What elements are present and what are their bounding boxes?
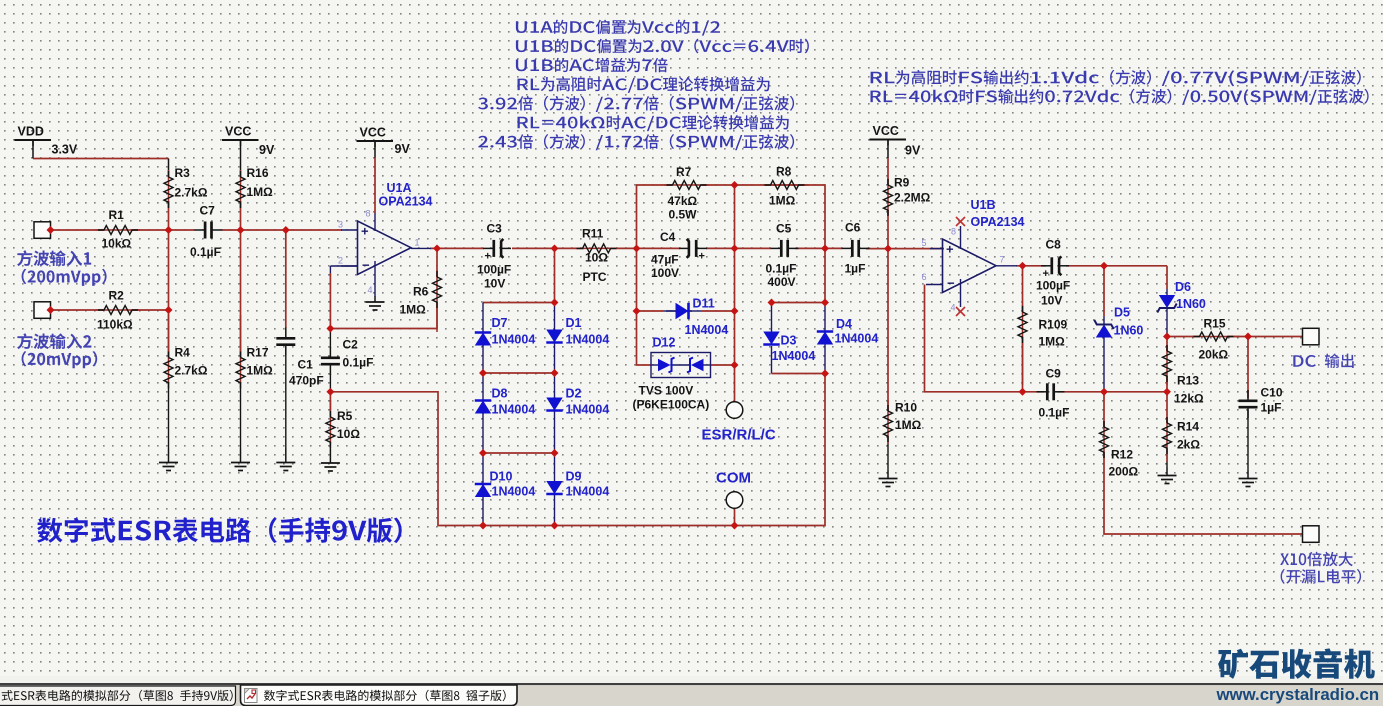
wire D3 D4 clamp loop [772, 248, 826, 302]
node label square-wave input1 [17, 250, 91, 266]
wire ladder D8 D2 cells [482, 373, 484, 401]
svg-text:4: 4 [368, 285, 373, 295]
terminal COM [726, 492, 743, 509]
svg-text:R16: R16 [247, 166, 269, 180]
svg-text:R11: R11 [582, 227, 604, 241]
svg-text:400V: 400V [768, 275, 796, 289]
svg-text:2.7kΩ: 2.7kΩ [175, 186, 208, 200]
svg-text:D10: D10 [490, 470, 513, 484]
wire D1 column [554, 303, 556, 331]
power VCC 9V (R16 column) [222, 139, 259, 141]
wire U1B feedback to C9 [925, 285, 1045, 392]
svg-text:C9: C9 [1046, 367, 1062, 381]
annotation note line 7 [478, 134, 794, 150]
annotation note line 5 [478, 96, 794, 112]
capacitor C3 [483, 247, 494, 249]
svg-text:10V: 10V [1041, 294, 1062, 308]
resistor R1 [96, 229, 140, 231]
no-connect marker U1B pin4 [956, 307, 965, 316]
wire R109 branch [1022, 266, 1024, 312]
wire R6 branch [436, 248, 438, 277]
svg-text:R1: R1 [109, 208, 125, 222]
svg-text:47µF: 47µF [651, 253, 679, 267]
svg-text:D5: D5 [1114, 306, 1130, 320]
svg-text:D7: D7 [492, 316, 508, 330]
no-connect marker U1B pin8 [956, 217, 965, 226]
sheet tab 2 (tweezer version) [241, 685, 518, 706]
wire R5 to ground [329, 442, 331, 449]
svg-text:1N4004: 1N4004 [566, 403, 610, 417]
op-amp U1B [943, 239, 997, 293]
node label X10 amplified [1280, 552, 1353, 567]
svg-text:1N4004: 1N4004 [835, 332, 879, 346]
wire R12 branch [1103, 392, 1105, 427]
node label square-wave input2 [17, 333, 91, 349]
svg-text:10kΩ: 10kΩ [102, 237, 132, 251]
wire R14 branch [1166, 392, 1168, 423]
svg-text:C1: C1 [298, 358, 314, 372]
svg-text:0.5W: 0.5W [669, 208, 698, 222]
svg-text:PTC: PTC [583, 270, 607, 284]
svg-text:VCC: VCC [873, 124, 899, 138]
svg-text:+: + [485, 250, 491, 262]
capacitor C5 [771, 247, 782, 249]
resistor R8 [763, 184, 809, 186]
ground below R14 [1166, 468, 1168, 476]
svg-text:C7: C7 [200, 204, 216, 218]
annotation note line 2 [516, 39, 809, 54]
wire VCC to R16 [240, 140, 242, 177]
TVS diode D12 [651, 353, 711, 378]
svg-text:U1B: U1B [971, 198, 996, 212]
svg-text:R2: R2 [109, 289, 125, 303]
svg-text:1N4004: 1N4004 [492, 333, 536, 347]
svg-text:110kΩ: 110kΩ [97, 318, 133, 332]
resistor R10 [887, 400, 889, 444]
annotation note line 3 [516, 58, 668, 73]
diode D8 [482, 401, 484, 414]
resistor R16 [240, 170, 242, 208]
resistor R15 [1192, 336, 1240, 338]
svg-text:1MΩ: 1MΩ [400, 303, 427, 317]
svg-text:100µF: 100µF [1036, 279, 1070, 293]
wire R11 to C4 [610, 247, 681, 249]
svg-text:D3: D3 [781, 334, 797, 348]
svg-text:1MΩ: 1MΩ [247, 185, 274, 199]
title digital ESR meter circuit (handheld 9V) [37, 518, 402, 544]
diode D9 [554, 481, 556, 495]
capacitor C4 [679, 247, 690, 249]
svg-text:0.1µF: 0.1µF [190, 245, 221, 259]
svg-text:R6: R6 [413, 285, 429, 299]
wire D12 branch [637, 311, 652, 365]
resistor R12 [1103, 421, 1105, 458]
svg-text:1MΩ: 1MΩ [1039, 335, 1066, 349]
wire input1 line port1-R1-junction-C7-opamp [51, 229, 105, 231]
svg-text:C6: C6 [845, 221, 861, 235]
svg-text:6: 6 [922, 272, 927, 282]
wire VCC to R9 [887, 140, 889, 159]
sheet tab 1 label [2, 690, 233, 702]
wire U1A VCC supply [374, 141, 376, 158]
svg-text:200Ω: 200Ω [1109, 465, 1139, 479]
svg-text:9V: 9V [905, 144, 921, 158]
svg-text:1N4004: 1N4004 [772, 349, 816, 363]
watermark logo crystalradio [1218, 648, 1375, 679]
power VCC 9V (U1A) [357, 140, 394, 142]
sheet tab 2 icon [245, 689, 258, 703]
svg-text:1µF: 1µF [845, 262, 866, 276]
wire mid node column [734, 248, 736, 401]
capacitor C10 [1247, 390, 1249, 401]
capacitor C1 [285, 328, 287, 339]
svg-text:47kΩ: 47kΩ [668, 194, 698, 208]
svg-text:C4: C4 [660, 230, 676, 244]
wire C3 to R11 [512, 247, 584, 249]
diode D3 [763, 332, 779, 345]
svg-text:1N4004: 1N4004 [492, 403, 536, 417]
wire C9 to R13 junction [1057, 391, 1167, 393]
svg-text:9V: 9V [259, 143, 275, 157]
resistor R4 [168, 315, 170, 384]
svg-text:R109: R109 [1039, 318, 1068, 332]
svg-text:D12: D12 [653, 336, 676, 350]
svg-text:ESR/R/L/C: ESR/R/L/C [702, 427, 776, 444]
wire R16 to input line [240, 201, 242, 230]
wire U1A output line [430, 247, 484, 249]
ground below C10 [1247, 471, 1249, 479]
wire R7-R8 junction drop [734, 185, 736, 248]
resistor R11 [576, 247, 617, 249]
svg-text:C5: C5 [776, 222, 792, 236]
svg-text:C10: C10 [1261, 386, 1283, 400]
wire VDD 3.3V rail to R3 top [32, 140, 34, 159]
sheet tab 2 label [264, 690, 506, 702]
wire R17 to ground [240, 382, 242, 449]
resistor R3 [168, 170, 170, 208]
wire column R3-R4 node [168, 201, 170, 357]
resistor R7 [664, 184, 709, 186]
diode D1 [554, 329, 556, 343]
node label DC output [1293, 354, 1353, 369]
svg-text:2: 2 [338, 256, 343, 266]
svg-text:8: 8 [366, 209, 371, 219]
resistor R14 [1166, 417, 1168, 462]
wire ladder bottom cells [482, 453, 484, 484]
svg-text:10Ω: 10Ω [337, 427, 360, 441]
svg-text:12kΩ: 12kΩ [1174, 392, 1204, 406]
svg-text:0.1µF: 0.1µF [766, 262, 797, 276]
wire D11 branch [637, 248, 665, 311]
capacitor C6 [842, 247, 853, 249]
svg-text:10Ω: 10Ω [585, 251, 608, 265]
svg-text:1N4004: 1N4004 [685, 323, 729, 337]
svg-text:1MΩ: 1MΩ [769, 194, 796, 208]
svg-text:−: − [362, 258, 370, 273]
svg-text:+: + [361, 224, 369, 239]
svg-text:100µF: 100µF [477, 263, 511, 277]
svg-text:1MΩ: 1MΩ [247, 364, 274, 378]
ground below R10 [887, 471, 889, 479]
resistor R9 [887, 178, 889, 215]
svg-text:R9: R9 [894, 176, 910, 190]
svg-text:R3: R3 [175, 166, 191, 180]
wire U1B output line [1016, 265, 1046, 267]
svg-text:R15: R15 [1204, 317, 1226, 331]
svg-text:R17: R17 [247, 346, 269, 360]
wire C10 branch [1247, 337, 1249, 399]
ground below R4 [168, 449, 170, 463]
svg-text:1MΩ: 1MΩ [895, 418, 922, 432]
svg-text:VCC: VCC [225, 125, 251, 139]
resistor R13 [1166, 345, 1168, 385]
svg-text:1N60: 1N60 [1176, 297, 1206, 311]
wire ladder rail 3 [482, 413, 484, 453]
wire input2 line port2-R2 [51, 309, 105, 311]
svg-text:5: 5 [922, 238, 927, 248]
svg-text:R4: R4 [175, 346, 191, 360]
diode D4 [817, 332, 833, 345]
wire D6 branch [1166, 266, 1168, 289]
svg-text:COM: COM [716, 470, 751, 487]
svg-text:R10: R10 [895, 401, 917, 415]
ground below R17 [240, 449, 242, 463]
svg-text:D6: D6 [1175, 280, 1191, 294]
port DC output [1303, 328, 1320, 345]
svg-text:1: 1 [415, 238, 420, 248]
port X10 output [1303, 526, 1320, 543]
scrollbar strip [0, 676, 1383, 684]
svg-text:OPA2134: OPA2134 [379, 195, 433, 209]
svg-text:D9: D9 [566, 470, 582, 484]
wire ladder rail 2 [482, 345, 484, 373]
ground U1A pin4 [374, 296, 376, 302]
diode D2 [554, 397, 556, 411]
annotation note line 6 [518, 115, 789, 131]
svg-text:0.1µF: 0.1µF [343, 356, 374, 370]
svg-text:4: 4 [951, 303, 956, 313]
wire R15 line [1167, 336, 1200, 338]
tab bar divider line [0, 683, 1383, 685]
port input2 [34, 302, 51, 319]
svg-text:470pF: 470pF [289, 374, 324, 388]
wire C4 to C5 [706, 247, 771, 249]
svg-text:VCC: VCC [360, 126, 386, 140]
capacitor C2 [329, 347, 331, 358]
svg-text:2.7kΩ: 2.7kΩ [175, 364, 208, 378]
svg-text:3.3V: 3.3V [52, 143, 78, 157]
svg-text:D4: D4 [836, 317, 852, 331]
svg-text:20kΩ: 20kΩ [1199, 348, 1229, 362]
svg-text:7: 7 [1000, 255, 1005, 265]
wire COM terminal stem [734, 509, 736, 526]
wire D5 branch [1103, 266, 1105, 316]
wire R4 to ground [168, 382, 170, 449]
op-amp U1A [358, 221, 412, 275]
terminal ESR/R/L/C [726, 402, 743, 419]
annotation note line 4 [518, 77, 770, 93]
wire R13 branch [1166, 337, 1168, 352]
diode D7 [482, 333, 484, 346]
power VCC 9V (R9 column) [870, 139, 907, 141]
svg-text:−: − [947, 276, 955, 291]
wire R17 column [240, 230, 242, 357]
diode D10 [482, 484, 484, 497]
node label input2 level [22, 351, 98, 368]
annotation note right line 2 [871, 89, 1369, 105]
svg-text:100V: 100V [651, 266, 679, 280]
svg-text:R13: R13 [1177, 374, 1199, 388]
svg-text:R12: R12 [1111, 448, 1133, 462]
diode D5 1N60 [1096, 325, 1112, 338]
wire C2 node to R5 [329, 329, 331, 349]
svg-text:U1A: U1A [387, 181, 412, 195]
junction dots [165, 226, 173, 234]
diode D6 1N60 [1159, 295, 1175, 308]
capacitor C9 [1037, 391, 1048, 393]
svg-text:C3: C3 [487, 222, 503, 236]
svg-text:1N4004: 1N4004 [566, 485, 610, 499]
svg-text:1N4004: 1N4004 [566, 333, 610, 347]
diode D11 [666, 310, 692, 312]
resistor R17 [240, 315, 242, 384]
capacitor C8 [1041, 265, 1052, 267]
wire R10 to ground [887, 436, 889, 471]
annotation note line 1 [516, 20, 720, 36]
wire diode ladder top rail [483, 248, 555, 302]
power VDD 3.3V [15, 139, 52, 141]
wire R10 column [887, 249, 889, 411]
svg-text:8: 8 [951, 227, 956, 237]
sheet tab bar [0, 685, 1383, 706]
node label open-drain L level [1281, 569, 1362, 584]
svg-text:D1: D1 [566, 316, 582, 330]
svg-text:1N4004: 1N4004 [492, 485, 536, 499]
svg-text:R8: R8 [776, 165, 792, 179]
svg-text:C8: C8 [1046, 238, 1062, 252]
svg-text:www.crystalradio.cn: www.crystalradio.cn [1216, 685, 1380, 704]
svg-text:2kΩ: 2kΩ [1177, 438, 1200, 452]
svg-text:VDD: VDD [18, 125, 44, 139]
svg-text:+: + [946, 242, 954, 257]
node label input1 level [22, 269, 107, 286]
svg-text:+: + [699, 250, 705, 262]
svg-text:D11: D11 [693, 297, 715, 311]
svg-text:C2: C2 [343, 338, 359, 352]
sheet tab 1 (handheld 9V) [0, 686, 236, 706]
svg-text:1µF: 1µF [1261, 401, 1282, 415]
svg-text:0.1µF: 0.1µF [1039, 406, 1070, 420]
svg-text:3: 3 [338, 220, 343, 230]
resistor R6 [436, 270, 438, 332]
svg-text:D2: D2 [566, 387, 582, 401]
wire feedback node to bottom bus [330, 374, 825, 526]
port input1 [34, 222, 51, 239]
resistor R2 [96, 309, 140, 311]
svg-text:D8: D8 [492, 387, 508, 401]
resistor R5 [329, 400, 331, 444]
wire C1 column [285, 230, 287, 328]
svg-text:1N60: 1N60 [1114, 324, 1144, 338]
svg-text:R14: R14 [1177, 420, 1199, 434]
svg-text:R7: R7 [676, 165, 692, 179]
svg-text:TVS 100V: TVS 100V [639, 384, 694, 398]
resistor R109 [1022, 305, 1024, 385]
svg-text:(P6KE100CA): (P6KE100CA) [633, 398, 710, 412]
annotation note right line 1 [871, 70, 1361, 86]
wire U1A inverting feedback [330, 265, 357, 267]
svg-text:OPA2134: OPA2134 [971, 215, 1025, 229]
wire R7 top branch [637, 185, 673, 248]
wire C6 to U1B noninverting [866, 248, 944, 250]
svg-text:10V: 10V [484, 277, 505, 291]
ground below R5 [329, 449, 331, 463]
svg-text:9V: 9V [395, 142, 411, 156]
wire C5 to C6 [795, 247, 842, 249]
capacitor C7 [194, 229, 205, 231]
svg-text:R5: R5 [337, 409, 353, 423]
wire R9 to main line [887, 210, 889, 249]
ground below C1 [285, 449, 287, 463]
svg-text:2.2MΩ: 2.2MΩ [894, 191, 931, 205]
